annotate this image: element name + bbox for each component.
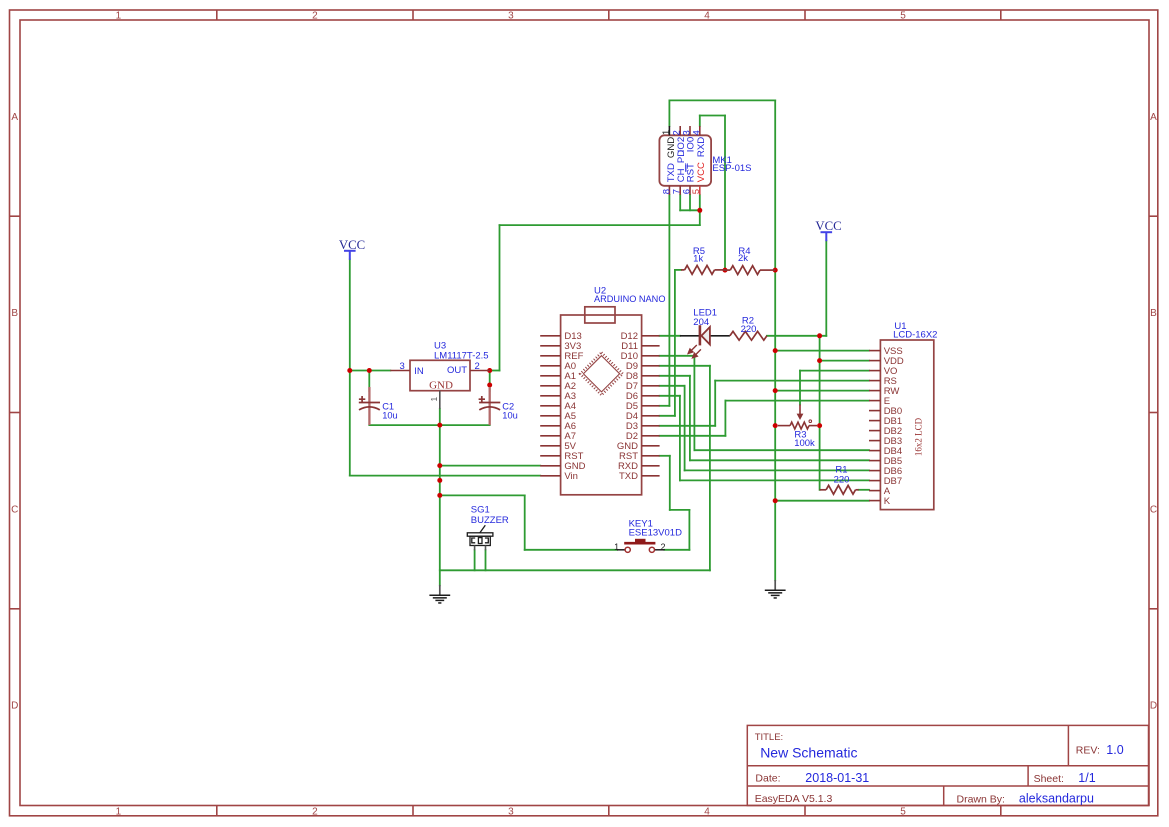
svg-text:1: 1	[429, 397, 439, 402]
svg-text:VCC: VCC	[339, 238, 365, 252]
svg-text:Drawn By:: Drawn By:	[957, 793, 1005, 805]
svg-text:aleksandarpu: aleksandarpu	[1019, 791, 1094, 805]
svg-text:TXD: TXD	[619, 471, 638, 482]
svg-text:Vin: Vin	[564, 471, 578, 482]
svg-text:Sheet:: Sheet:	[1034, 773, 1064, 785]
svg-text:1k: 1k	[693, 254, 703, 265]
svg-text:B: B	[11, 308, 18, 319]
svg-text:1: 1	[614, 542, 619, 552]
svg-text:C: C	[11, 504, 18, 515]
svg-text:2: 2	[312, 807, 318, 818]
svg-text:2: 2	[475, 361, 480, 372]
svg-text:RXD: RXD	[696, 137, 707, 157]
svg-text:BUZZER: BUZZER	[471, 515, 509, 526]
svg-text:2018-01-31: 2018-01-31	[805, 771, 869, 785]
svg-text:VCC: VCC	[696, 162, 707, 182]
svg-text:D: D	[1150, 701, 1157, 712]
svg-text:204: 204	[693, 317, 709, 328]
svg-text:REV:: REV:	[1076, 744, 1100, 756]
svg-text:220: 220	[834, 474, 850, 485]
svg-text:IN: IN	[414, 366, 424, 377]
svg-text:10u: 10u	[502, 411, 518, 421]
svg-text:4: 4	[704, 11, 710, 22]
svg-text:1: 1	[116, 11, 122, 22]
svg-text:5: 5	[900, 807, 906, 818]
svg-text:ESP-01S: ESP-01S	[712, 163, 751, 174]
svg-text:TITLE:: TITLE:	[755, 732, 784, 743]
svg-text:A: A	[11, 112, 18, 123]
svg-text:4: 4	[691, 130, 702, 135]
svg-text:100k: 100k	[794, 438, 815, 449]
svg-text:5: 5	[900, 11, 906, 22]
svg-text:1.0: 1.0	[1106, 743, 1123, 757]
svg-text:3: 3	[508, 11, 514, 22]
svg-text:D: D	[11, 701, 18, 712]
svg-text:4: 4	[704, 807, 710, 818]
svg-text:3: 3	[400, 361, 405, 372]
svg-text:1: 1	[116, 807, 122, 818]
svg-text:New Schematic: New Schematic	[760, 745, 857, 761]
svg-text:A: A	[1150, 112, 1157, 123]
svg-text:16x2 LCD: 16x2 LCD	[913, 417, 923, 456]
svg-text:LCD-16X2: LCD-16X2	[893, 330, 937, 341]
svg-text:3: 3	[508, 807, 514, 818]
svg-text:8: 8	[661, 189, 672, 194]
svg-text:VCC: VCC	[815, 219, 841, 233]
svg-text:C: C	[1150, 504, 1157, 515]
svg-text:Date:: Date:	[755, 773, 780, 785]
svg-text:10u: 10u	[382, 411, 398, 421]
svg-text:1/1: 1/1	[1078, 771, 1095, 785]
svg-text:2: 2	[660, 542, 665, 552]
svg-text:1: 1	[661, 130, 672, 135]
svg-text:2: 2	[312, 11, 318, 22]
svg-text:OUT: OUT	[447, 365, 467, 376]
svg-text:LM1117T-2.5: LM1117T-2.5	[434, 350, 489, 361]
svg-text:ARDUINO NANO: ARDUINO NANO	[594, 294, 665, 304]
svg-text:2k: 2k	[738, 253, 748, 264]
svg-text:K: K	[884, 496, 891, 507]
svg-text:GND: GND	[429, 380, 453, 392]
svg-text:220: 220	[741, 324, 757, 335]
svg-text:EasyEDA V5.1.3: EasyEDA V5.1.3	[755, 793, 833, 805]
svg-text:5: 5	[691, 189, 702, 194]
svg-text:ESE13V01D: ESE13V01D	[629, 528, 682, 539]
svg-text:B: B	[1150, 308, 1157, 319]
